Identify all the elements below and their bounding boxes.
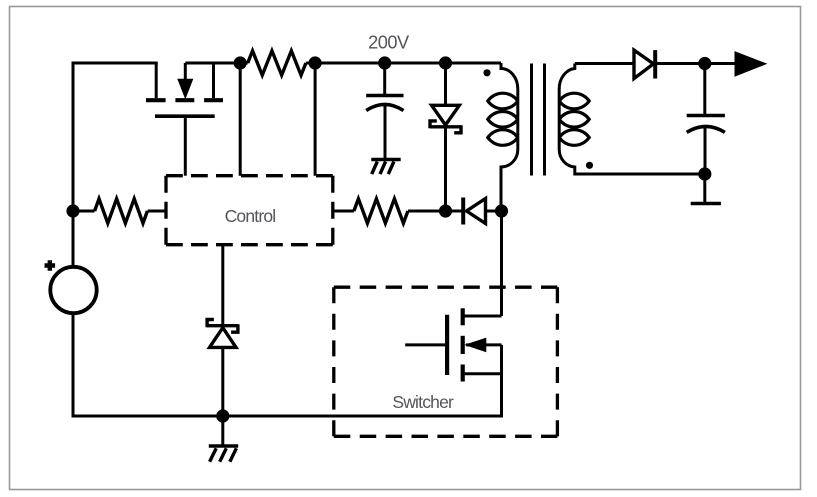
wire R3 to node — [408, 210, 446, 213]
transistor Q1 (startup MOSFET) — [146, 100, 223, 116]
primary phasing dot — [483, 69, 490, 76]
capacitor C2 (output) — [703, 64, 706, 115]
resistor R1 (top) — [248, 51, 306, 75]
wire R1 left dot to Control — [239, 63, 242, 176]
transformer T1 secondary — [559, 64, 705, 175]
wire R2 to Control — [148, 210, 167, 213]
wire left column vertical — [72, 62, 75, 267]
wire drain vertical — [500, 211, 503, 316]
node dot — [309, 56, 322, 69]
secondary phasing dot — [586, 162, 593, 169]
node dot drain — [495, 204, 508, 217]
plus sign — [45, 260, 56, 271]
capacitor C1 (bulk cap) — [383, 63, 386, 94]
wire node to R2 — [73, 210, 95, 213]
wire to D2 — [446, 210, 464, 213]
output arrow — [735, 52, 766, 76]
node dot — [234, 56, 247, 69]
diode D3 (output rectifier) — [634, 50, 654, 78]
wire R1 right dot to Control — [314, 63, 317, 176]
ground (output, bar) — [703, 174, 706, 203]
zener diode Z2 (below control) — [221, 245, 224, 326]
wire Q1 drain to node — [185, 62, 240, 65]
wire D3 to output node — [655, 62, 737, 65]
Q2 channel segments — [461, 336, 465, 354]
source V1 — [50, 267, 96, 313]
resistor R3 (right of control) — [354, 199, 408, 223]
wire bottom rail — [72, 415, 504, 418]
node dot output return — [698, 167, 711, 180]
wire R1 to transformer primary — [306, 62, 501, 65]
node dot feedback left — [66, 204, 79, 217]
svg-text:Control: Control — [225, 206, 276, 226]
ground (chassis, bottom) — [221, 416, 224, 445]
node dot zener top — [439, 56, 452, 69]
transformer core — [532, 64, 545, 176]
node 200V dot — [378, 56, 391, 69]
node dot output — [698, 57, 711, 70]
zener diode Z1 (clamp) — [444, 63, 447, 105]
svg-text:200V: 200V — [368, 33, 410, 53]
switcher box U2 — [334, 287, 558, 436]
wire source to bottom rail — [72, 313, 75, 416]
wire Control to R3 — [333, 210, 354, 213]
node dot zener bottom — [439, 204, 452, 217]
node dot ground — [216, 409, 229, 422]
ground (chassis, below C1) — [371, 158, 400, 161]
diode D2 (feedback) — [461, 198, 465, 225]
transformer T1 primary — [501, 63, 518, 211]
wire secondary to D3 — [575, 62, 634, 65]
resistor R2 (left feedback) — [95, 199, 148, 223]
wire node to R1 — [240, 62, 248, 65]
wire top-left horizontal — [73, 62, 158, 65]
transistor Q2 (switch MOSFET) — [461, 308, 465, 325]
control box U1 — [166, 176, 333, 245]
svg-text:Switcher: Switcher — [392, 392, 454, 412]
